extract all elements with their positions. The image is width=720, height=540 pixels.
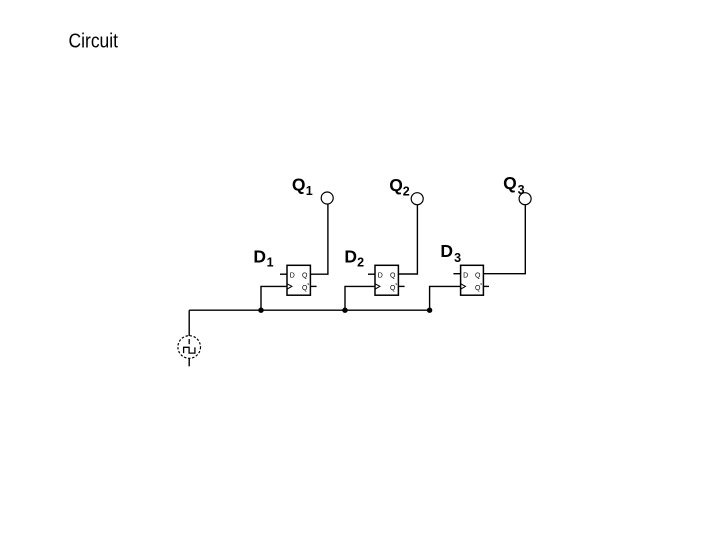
wire Q1 output (311, 204, 328, 274)
wire clock source riser (188, 310, 190, 336)
junction node 2 (342, 308, 347, 313)
svg-text:1: 1 (267, 256, 274, 270)
svg-text:2: 2 (403, 185, 410, 199)
pin D3.Qbar stub (484, 285, 490, 287)
clock source V1 (178, 336, 201, 359)
clock source bottom stub (188, 358, 190, 366)
svg-text:Q: Q (302, 285, 308, 292)
svg-text:Q: Q (292, 174, 306, 194)
svg-text:D: D (344, 246, 357, 266)
svg-text:D: D (253, 247, 266, 267)
svg-text:Q: Q (302, 273, 308, 280)
svg-text:Q: Q (475, 273, 481, 280)
pin D3.D stub (453, 273, 460, 275)
pin D1.D stub (280, 273, 287, 275)
junction node 3 (427, 308, 432, 313)
label Q1 (292, 174, 313, 198)
label D3 (440, 241, 461, 265)
terminal Q2 (411, 193, 423, 205)
label Q3 (503, 173, 524, 197)
label D1 (253, 247, 273, 270)
svg-text:3: 3 (454, 251, 461, 265)
wire clock to D1 (261, 286, 287, 310)
label D2 (344, 246, 364, 269)
pin D2.D stub (368, 273, 375, 275)
svg-text:Q: Q (389, 175, 403, 195)
svg-text:1: 1 (306, 184, 313, 198)
wire clock to D2 (345, 286, 375, 310)
terminal Q3 (519, 193, 531, 205)
pin D2.Qbar stub (399, 285, 405, 287)
junction node 1 (258, 308, 263, 313)
svg-text:2: 2 (357, 256, 364, 270)
svg-text:Q: Q (503, 173, 517, 193)
label Q2 (389, 175, 410, 198)
terminal Q1 (321, 192, 333, 204)
wire clock to D3 (430, 286, 460, 310)
wire Q2 output (399, 205, 418, 274)
svg-text:Q: Q (475, 285, 481, 292)
svg-text:D: D (440, 241, 453, 261)
svg-text:Q: Q (390, 273, 396, 280)
wire Q3 output (484, 205, 526, 274)
pin D1.Qbar stub (311, 285, 317, 287)
flip-flop D1 (287, 265, 310, 295)
svg-text:Q: Q (390, 285, 396, 292)
svg-text:Circuit: Circuit (69, 30, 119, 52)
svg-text:D: D (290, 273, 295, 280)
flip-flop D3 (461, 265, 484, 295)
wire clock bus (189, 309, 429, 311)
svg-text:D: D (463, 273, 468, 280)
flip-flop D2 (375, 265, 398, 295)
svg-text:D: D (378, 273, 383, 280)
